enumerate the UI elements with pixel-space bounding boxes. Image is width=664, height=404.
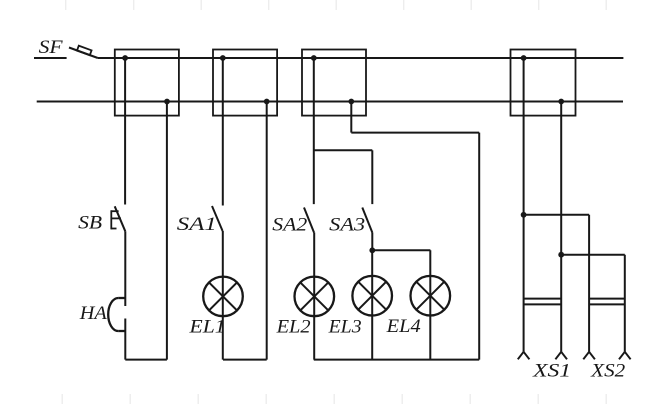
node: junction dot box2 top bus xyxy=(220,55,226,61)
lamp EL4 xyxy=(411,276,451,316)
svg-text:EL1: EL1 xyxy=(188,317,225,337)
wire: branch3 neutral horizontal xyxy=(351,132,479,134)
wire: branch to SA3 horizontal xyxy=(314,149,373,151)
wire: node through lamp EL3 to bottom xyxy=(371,250,373,359)
wire: branch2 bottom link xyxy=(223,359,267,361)
node: junction dot box3 top bus xyxy=(311,55,317,61)
wire: branch2 return to bottom bus xyxy=(266,102,268,360)
node: junction dot box2 bottom bus xyxy=(264,99,270,105)
node: junction dot XS feed split right xyxy=(558,252,564,258)
wire: SA2 through lamp EL2 to bottom xyxy=(313,233,315,360)
node: junction dot box1 bottom bus xyxy=(164,99,170,105)
socket contact fork XS2 pin2 xyxy=(619,352,631,360)
wire: branch3 neutral right drop xyxy=(478,133,480,360)
wire: branch4 right drop (XS1 pin 2) xyxy=(560,102,562,352)
bell HA (semicircle with terminals) xyxy=(108,298,125,331)
svg-text:EL2: EL2 xyxy=(275,317,310,337)
node: junction dot box1 top bus xyxy=(122,55,128,61)
junction box 2 xyxy=(213,50,277,116)
socket contact fork XS1 pin2 xyxy=(555,352,567,360)
svg-text:EL4: EL4 xyxy=(386,317,421,337)
circuit breaker SF blade xyxy=(69,48,98,59)
wire: SA3 feed drop xyxy=(371,150,373,204)
wire: SB to bell HA xyxy=(124,231,126,306)
svg-text:SA3: SA3 xyxy=(329,216,365,236)
push button SB blade xyxy=(115,206,126,231)
wire: branch1 phase drop to SB xyxy=(124,58,126,205)
svg-text:SA2: SA2 xyxy=(272,216,307,236)
svg-text:EL3: EL3 xyxy=(328,317,362,337)
node: junction dot box4 top bus xyxy=(521,55,527,61)
svg-text:XS2: XS2 xyxy=(590,362,625,382)
wire: bottom supply line N xyxy=(37,101,623,103)
wire: XS2 right drop (XS2 pin 2) xyxy=(624,255,626,352)
switch SA1 blade xyxy=(212,206,223,231)
wire: branch1 return to bottom bus xyxy=(166,102,168,360)
junction box 1 xyxy=(115,50,179,116)
wire: branch3 neutral drop from box3 xyxy=(350,102,352,133)
wire: branch3 phase drop to SA2 xyxy=(313,58,315,204)
node: junction dot box3 bottom bus xyxy=(348,99,354,105)
lamp EL3 xyxy=(352,276,392,316)
lamp EL1 xyxy=(203,277,243,317)
svg-text:HA: HA xyxy=(79,304,108,324)
node: junction dot box4 bottom bus xyxy=(558,99,564,105)
socket contact fork XS2 pin1 xyxy=(583,352,595,360)
switch SA2 blade xyxy=(304,208,314,233)
wire: bell HA down to branch1 bottom xyxy=(124,319,126,360)
switch SA3 blade xyxy=(362,208,372,233)
socket contact fork XS1 pin1 xyxy=(518,352,530,360)
wire: XS2 feed horizontal xyxy=(524,214,590,216)
wire: branch2 phase drop to SA1 xyxy=(222,58,224,206)
wire: XS2 neutral horizontal xyxy=(561,254,625,256)
svg-text:SA1: SA1 xyxy=(177,215,217,235)
wire: left stub of top supply line (under SF label) xyxy=(34,57,67,59)
wire: top supply line L xyxy=(98,57,624,59)
node: junction dot XS feed split left xyxy=(521,212,527,218)
svg-text:SB: SB xyxy=(78,214,102,234)
wire: branch1 bottom link xyxy=(125,359,167,361)
junction box 3 xyxy=(302,50,366,116)
node: junction dot SA3 output xyxy=(369,247,375,253)
svg-text:XS1: XS1 xyxy=(532,362,571,382)
wire: branch3 bottom rail xyxy=(314,359,479,361)
socket XS2 body bars xyxy=(589,299,625,305)
push button SB actuator xyxy=(111,210,121,229)
wire: node to EL4 horizontal xyxy=(372,249,430,251)
junction box 4 xyxy=(511,50,576,116)
socket XS1 body bars xyxy=(524,299,562,305)
wire: SA3 to node EL3/EL4 xyxy=(371,233,373,251)
circuit breaker SF body (rectangle on blade) xyxy=(77,46,92,56)
wire: branch4 left drop (XS1 pin 1) xyxy=(523,58,525,352)
wire: SA1 through lamp EL1 to bottom xyxy=(222,231,224,360)
wire: XS2 left drop (XS2 pin 1) xyxy=(588,215,590,352)
wire: EL4 feed drop through lamp to bottom xyxy=(429,250,431,359)
lamp EL2 xyxy=(295,277,335,317)
svg-text:SF: SF xyxy=(39,38,64,58)
